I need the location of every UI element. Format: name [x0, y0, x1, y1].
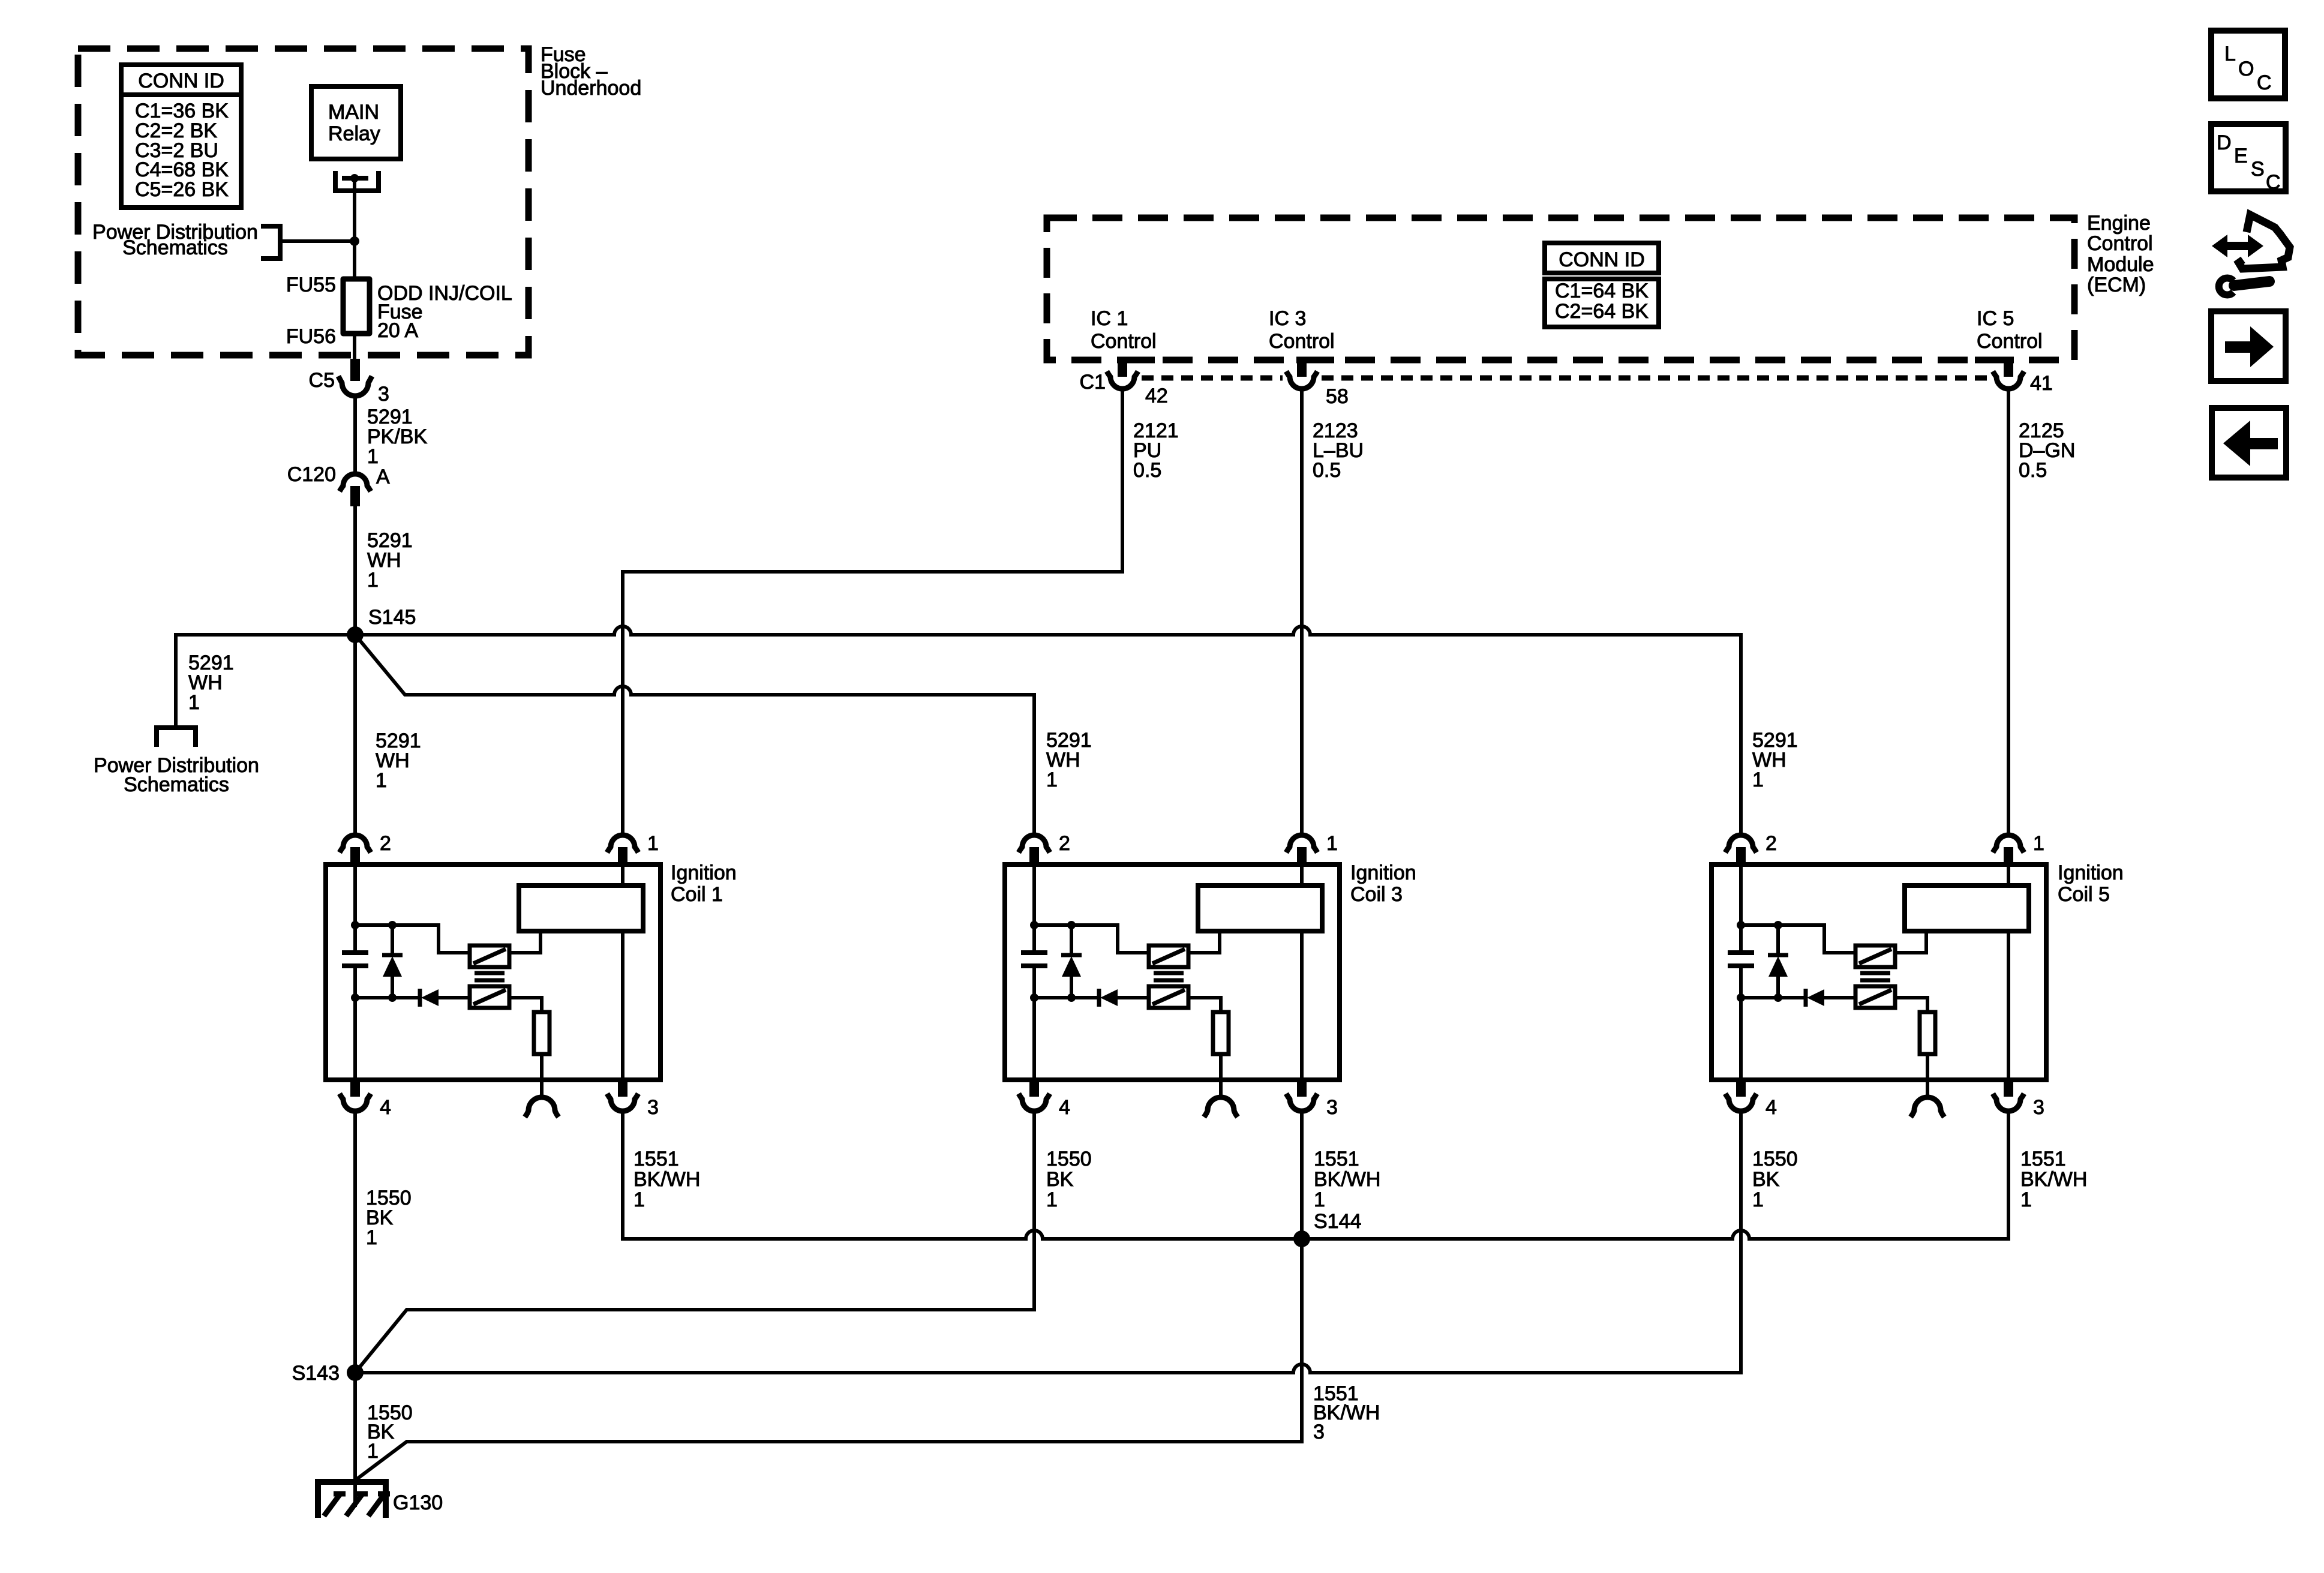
- svg-text:FU55: FU55: [286, 274, 336, 296]
- svg-text:S145: S145: [368, 606, 416, 629]
- svg-text:C5=26 BK: C5=26 BK: [135, 178, 229, 201]
- vehicle double-arrow icon: [2212, 235, 2263, 257]
- splice S145: [347, 626, 364, 643]
- svg-text:BK: BK: [1752, 1168, 1780, 1191]
- fuse block - underhood dashed box: [78, 49, 529, 355]
- svg-text:D: D: [2217, 131, 2232, 154]
- svg-text:41: 41: [2030, 372, 2053, 395]
- svg-text:20 A: 20 A: [377, 319, 418, 342]
- svg-text:1551: 1551: [633, 1148, 679, 1170]
- MAIN relay box: [311, 86, 401, 159]
- svg-text:CONN ID: CONN ID: [1559, 248, 1645, 271]
- wire junction to fuse: [353, 241, 356, 279]
- svg-text:1550: 1550: [1046, 1148, 1092, 1170]
- wire S145 to coil3 pin2 (hop at 1038): [355, 635, 1034, 835]
- wire 5291 PK/BK: [353, 395, 357, 474]
- svg-text:BK/WH: BK/WH: [633, 1168, 700, 1191]
- connector C5 pin 3: [350, 359, 360, 381]
- svg-text:0.5: 0.5: [1133, 459, 1161, 482]
- svg-text:1: 1: [367, 1440, 379, 1463]
- power distribution continuation bracket: [261, 226, 280, 259]
- svg-text:S143: S143: [292, 1362, 340, 1385]
- svg-text:1: 1: [366, 1226, 377, 1249]
- svg-text:Ignition: Ignition: [671, 861, 737, 884]
- svg-text:G130: G130: [393, 1491, 443, 1514]
- svg-text:1: 1: [367, 445, 379, 468]
- vehicle outline: [2239, 215, 2290, 269]
- svg-text:C1: C1: [1080, 371, 1106, 394]
- DESC icon: [2211, 124, 2286, 191]
- svg-text:1: 1: [1046, 769, 1058, 791]
- svg-text:1: 1: [1046, 1188, 1058, 1211]
- power distribution continuation bracket (lower): [157, 728, 196, 747]
- svg-text:0.5: 0.5: [2019, 459, 2047, 482]
- ECM pin 41 connector: [2004, 360, 2013, 377]
- wrench icon: [2234, 281, 2269, 286]
- svg-text:1: 1: [1752, 769, 1764, 791]
- svg-text:1: 1: [1314, 1188, 1325, 1211]
- connector C120 pin A: [340, 474, 371, 491]
- svg-text:E: E: [2234, 145, 2248, 167]
- wire coil3 pin3 down: [1300, 1111, 1304, 1239]
- LOC icon: [2211, 31, 2285, 98]
- svg-text:BK/WH: BK/WH: [2020, 1168, 2087, 1191]
- back arrow icon: [2212, 408, 2286, 478]
- splice S143: [347, 1364, 364, 1381]
- fuse FU55/FU56: [343, 279, 370, 334]
- svg-text:42: 42: [1145, 385, 1168, 407]
- svg-text:A: A: [376, 466, 390, 488]
- ECM connector C1 extent dotted line: [1142, 376, 1989, 381]
- wire 2125 D-GN IC5 control: [2007, 389, 2010, 835]
- svg-text:Control: Control: [1091, 330, 1157, 353]
- svg-text:1: 1: [2020, 1188, 2032, 1211]
- svg-text:0.5: 0.5: [1313, 459, 1341, 482]
- wire S144 bus (hops at 1724, 2902): [623, 1111, 2008, 1239]
- svg-text:S: S: [2251, 158, 2265, 181]
- svg-text:58: 58: [1326, 385, 1349, 408]
- svg-text:Control: Control: [2087, 232, 2153, 255]
- ECM box border dashes at pins: [1117, 357, 2014, 364]
- relay terminal bracket: [335, 171, 379, 191]
- forward arrow icon: [2211, 311, 2286, 381]
- svg-text:CONN ID: CONN ID: [138, 70, 224, 92]
- svg-text:Underhood: Underhood: [541, 77, 641, 100]
- svg-text:S144: S144: [1314, 1210, 1361, 1233]
- ignition coil 3: [1005, 832, 1340, 1119]
- svg-text:1: 1: [633, 1188, 645, 1211]
- svg-text:IC 1: IC 1: [1091, 307, 1128, 330]
- svg-text:3: 3: [378, 383, 389, 406]
- wire fuse to C5: [353, 334, 356, 360]
- CONN ID table (ECM): [1545, 243, 1659, 273]
- svg-text:Schematics: Schematics: [124, 773, 229, 796]
- svg-text:IC 5: IC 5: [1977, 307, 2014, 330]
- svg-text:C: C: [2257, 71, 2272, 94]
- CONN ID table (fuse block): [121, 65, 241, 95]
- svg-text:BK/WH: BK/WH: [1314, 1168, 1380, 1191]
- splice S144: [1293, 1230, 1310, 1247]
- ground G130: [318, 1482, 386, 1518]
- svg-text:Schematics: Schematics: [122, 236, 228, 259]
- svg-text:1551: 1551: [2020, 1148, 2066, 1170]
- svg-text:1: 1: [367, 569, 379, 592]
- wire relay to junction: [353, 178, 356, 241]
- svg-text:1: 1: [376, 769, 387, 792]
- svg-text:Engine: Engine: [2087, 212, 2151, 235]
- wire coil5 pin4 1550 BK to S143 (hop at 2170): [355, 1111, 1741, 1373]
- svg-text:FU56: FU56: [286, 325, 336, 348]
- svg-text:IC 3: IC 3: [1269, 307, 1306, 330]
- svg-text:1551: 1551: [1314, 1148, 1359, 1170]
- ignition coil 5: [1712, 832, 2046, 1119]
- ECM pin 58 connector: [1297, 360, 1307, 377]
- svg-text:Module: Module: [2087, 253, 2154, 276]
- svg-text:1: 1: [1752, 1188, 1764, 1211]
- svg-text:1: 1: [188, 691, 200, 714]
- wire 1551 BK/WH 3 to ground: [356, 1239, 1302, 1479]
- engine control module dashed box: [1047, 218, 2074, 360]
- svg-text:C2=64 BK: C2=64 BK: [1555, 300, 1649, 323]
- wire power distribution stub: [282, 239, 355, 243]
- svg-text:L: L: [2224, 43, 2236, 65]
- svg-text:Ignition: Ignition: [1350, 861, 1416, 884]
- svg-text:C1=64 BK: C1=64 BK: [1555, 280, 1649, 302]
- wire S145 to coil1 pin2: [353, 635, 357, 835]
- wire coil3 pin4 1550 BK to S143: [355, 1111, 1034, 1373]
- svg-text:Relay: Relay: [328, 122, 380, 145]
- wire S145 to power distribution: [176, 635, 355, 728]
- wire S145 to coil5 pin2 (hops at 1038, 2170): [355, 626, 1741, 835]
- svg-text:O: O: [2238, 58, 2254, 80]
- svg-text:Coil 1: Coil 1: [671, 883, 723, 906]
- svg-text:C: C: [2266, 171, 2281, 194]
- wire 2123 L-BU IC3 control: [1300, 389, 1304, 835]
- svg-text:1550: 1550: [1752, 1148, 1798, 1170]
- svg-text:MAIN: MAIN: [328, 101, 379, 124]
- wire 2121 PU IC1 control: [623, 389, 1122, 835]
- wire 5291 WH to S145: [353, 506, 357, 635]
- ECM pin 42 connector: [1118, 360, 1127, 377]
- svg-text:(ECM): (ECM): [2087, 274, 2146, 296]
- svg-text:Ignition: Ignition: [2058, 861, 2124, 884]
- svg-text:BK: BK: [1046, 1168, 1074, 1191]
- svg-text:C120: C120: [287, 463, 336, 486]
- ignition coil 1: [326, 832, 660, 1119]
- node power distribution tap: [350, 236, 359, 246]
- svg-text:3: 3: [1313, 1421, 1325, 1443]
- svg-text:Coil 5: Coil 5: [2058, 883, 2110, 906]
- svg-text:Control: Control: [1269, 330, 1335, 353]
- svg-text:Control: Control: [1977, 330, 2043, 353]
- svg-text:C5: C5: [309, 369, 335, 392]
- svg-text:Coil 3: Coil 3: [1350, 883, 1403, 906]
- wire coil1 pin4 1550 BK: [353, 1111, 357, 1482]
